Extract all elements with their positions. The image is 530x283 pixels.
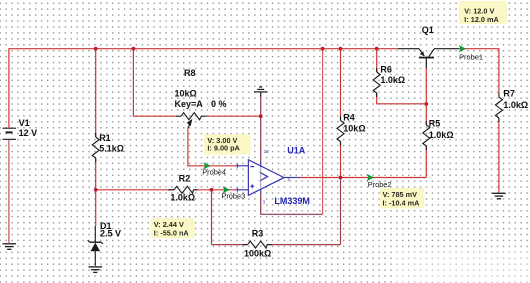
junction node R6/R5/Q1 base xyxy=(424,102,428,106)
svg-text:10kΩ: 10kΩ xyxy=(343,123,365,133)
wire top rail xyxy=(9,49,398,128)
svg-text:Key=A: Key=A xyxy=(175,99,204,109)
junction node plus-input/feedback xyxy=(210,188,214,192)
svg-text:1.0kΩ: 1.0kΩ xyxy=(380,75,405,85)
junction node R8/ground/pin12 xyxy=(259,114,263,118)
op-amp pin leads xyxy=(237,162,299,194)
wire R5 top to base node xyxy=(425,104,427,125)
svg-text:I: 12.0 mA: I: 12.0 mA xyxy=(464,15,499,24)
wire feedback bottom to R3 xyxy=(212,244,248,246)
ground above op-amp (inverted) xyxy=(254,87,267,97)
wire base node to Q1 base xyxy=(425,68,427,104)
ground under D1 xyxy=(89,267,103,273)
svg-text:1.0kΩ: 1.0kΩ xyxy=(429,130,454,140)
svg-text:1.0kΩ: 1.0kΩ xyxy=(170,193,195,203)
svg-text:12: 12 xyxy=(264,149,270,155)
svg-text:2.5 V: 2.5 V xyxy=(100,228,121,238)
wire feedback right riser xyxy=(340,178,342,245)
svg-text:LM339M: LM339M xyxy=(274,196,310,206)
probe box V1 rail xyxy=(459,1,507,24)
svg-text:3: 3 xyxy=(262,199,265,205)
svg-text:R1: R1 xyxy=(99,133,111,143)
junction node output/R4/feedback xyxy=(339,176,343,180)
svg-text:5.1kΩ: 5.1kΩ xyxy=(99,144,124,154)
svg-text:V: 12.0 V: V: 12.0 V xyxy=(464,6,494,15)
svg-text:I: -55.0 nA: I: -55.0 nA xyxy=(154,229,190,238)
svg-text:R4: R4 xyxy=(343,113,355,123)
svg-text:10kΩ: 10kΩ xyxy=(175,88,197,98)
svg-text:U1A: U1A xyxy=(287,146,306,156)
wire Q1 collector to probe1 xyxy=(434,48,459,50)
junction rail/VCC riser xyxy=(321,47,325,51)
svg-text:V1: V1 xyxy=(19,118,30,128)
junction rail/R8 xyxy=(132,47,136,51)
wire R1 bottom to node xyxy=(95,158,97,190)
resistor R4 xyxy=(337,117,344,146)
Q1 emitter arrowhead xyxy=(420,51,425,56)
svg-text:Probe4: Probe4 xyxy=(202,168,226,177)
wire R1 riser xyxy=(95,49,97,137)
wire probe1 to R7 xyxy=(459,49,499,93)
resistor R1 xyxy=(92,133,99,162)
wire pot wiper to minus input xyxy=(188,128,237,166)
svg-text:Probe1: Probe1 xyxy=(459,53,483,62)
wire pot right to ground node xyxy=(207,115,261,117)
resistor R5 xyxy=(423,121,430,150)
wire node to R2 xyxy=(96,189,174,191)
wire R4 bottom to output xyxy=(340,142,342,178)
svg-text:I: -10.4 mA: I: -10.4 mA xyxy=(383,199,421,208)
wire R2 to op-amp plus input xyxy=(193,189,237,191)
line through triangle (power pins) xyxy=(260,167,262,190)
svg-text:Probe3: Probe3 xyxy=(221,192,245,201)
svg-text:12 V: 12 V xyxy=(19,128,38,138)
wire rail to Q1 emitter lead xyxy=(398,48,419,50)
svg-text:R5: R5 xyxy=(429,118,441,128)
probe arrow Probe4 xyxy=(204,163,210,169)
junction rail/R1 xyxy=(94,47,98,51)
ground under R7 xyxy=(492,193,506,199)
wire R6 bottom to base node xyxy=(377,93,427,104)
op-amp U1A comparator xyxy=(248,160,284,196)
probe box minus input xyxy=(204,134,251,154)
svg-text:I: 9.00 pA: I: 9.00 pA xyxy=(207,143,240,152)
svg-text:0 %: 0 % xyxy=(211,99,227,109)
wire vcc riser xyxy=(322,49,324,215)
zener diode D1 xyxy=(88,226,103,266)
probe arrow Probe3 xyxy=(223,187,229,193)
svg-text:R3: R3 xyxy=(252,228,264,238)
probe arrow Probe1 xyxy=(459,46,465,52)
wire pot riser xyxy=(133,49,176,117)
resistor R6 xyxy=(373,68,380,97)
junction node R1/R2/D1 xyxy=(94,188,98,192)
pot wiper arrowhead xyxy=(187,119,193,126)
resistor R7 xyxy=(495,93,502,122)
svg-text:R6: R6 xyxy=(380,65,392,75)
junction rail/R6 xyxy=(375,47,379,51)
wire R7 bottom to ground xyxy=(498,118,500,193)
wire R6 riser xyxy=(376,49,378,72)
resistor R3 xyxy=(243,241,272,248)
wire op-amp output xyxy=(299,177,426,179)
probe box zener node xyxy=(151,218,195,238)
ground under V1 xyxy=(3,244,17,250)
wire R5 bottom riser xyxy=(425,146,427,178)
wire ground stem to pin 12 xyxy=(260,97,262,162)
wire R4 riser xyxy=(340,49,342,121)
wire D1 branch xyxy=(95,190,97,226)
svg-text:2: 2 xyxy=(287,177,290,183)
probe box output xyxy=(380,188,424,209)
svg-text:R2: R2 xyxy=(179,173,191,183)
probe arrow Probe2 xyxy=(367,174,373,180)
wire feedback left riser xyxy=(211,190,213,245)
resistor R2 xyxy=(168,186,197,193)
svg-text:R8: R8 xyxy=(184,68,196,78)
svg-text:Q1: Q1 xyxy=(422,25,434,35)
wire V1 bottom to ground xyxy=(8,139,10,243)
wire R3 to feedback right riser xyxy=(267,244,341,246)
battery V1 xyxy=(3,128,17,139)
transistor Q1 (PNP) xyxy=(419,49,434,68)
svg-text:R7: R7 xyxy=(503,89,515,99)
svg-text:Probe2: Probe2 xyxy=(368,180,392,189)
wire pin 3 to vcc riser xyxy=(261,194,323,215)
junction rail/R4 xyxy=(339,47,343,51)
svg-text:100kΩ: 100kΩ xyxy=(244,249,271,259)
potentiometer R8 xyxy=(176,113,207,128)
svg-text:1.0kΩ: 1.0kΩ xyxy=(503,100,528,110)
